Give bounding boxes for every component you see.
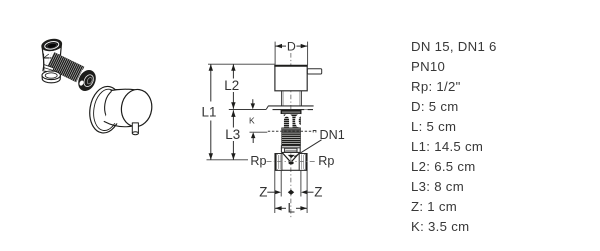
- svg-text:L1: 14.5 cm: L1: 14.5 cm: [411, 139, 483, 154]
- bottom wall flange ring: [42, 71, 60, 83]
- svg-text:DN1: DN1: [320, 128, 345, 142]
- knob lever pin: [132, 123, 138, 135]
- dimension L2: [224, 64, 239, 109]
- bonnet body section: [280, 148, 282, 153]
- threaded stem (dark with thin thread lines) below plate: [281, 110, 302, 146]
- valve body vertical column + hex band: [43, 54, 60, 71]
- valve cone filled triangle: [288, 155, 295, 158]
- svg-text:K: 3.5 cm: K: 3.5 cm: [411, 219, 469, 234]
- vertical centerline (dash-dot): [290, 53, 292, 219]
- svg-text:nd: nd: [279, 106, 310, 134]
- svg-text:K: K: [249, 115, 255, 125]
- horizontal centerline through ports (dash-dot): [267, 160, 316, 162]
- svg-text:D: D: [287, 39, 296, 53]
- svg-text:L: L: [287, 200, 294, 215]
- svg-text:D: 5 cm: D: 5 cm: [411, 99, 459, 114]
- knob (top view rectangle): [275, 66, 307, 91]
- K lower extension line + dashed wall line: [250, 131, 268, 133]
- svg-text:L: 5 cm: L: 5 cm: [411, 119, 456, 134]
- right port (female thread): [299, 154, 307, 171]
- bonnet white band: [281, 146, 300, 148]
- left port (female thread): [275, 154, 282, 171]
- svg-text:L1: L1: [202, 105, 217, 120]
- centerline extension line (left): [207, 159, 249, 161]
- valve body cup (top female thread opening): [41, 38, 62, 58]
- knob cylinder (base ellipse + sides + front face): [102, 87, 154, 128]
- seat ellipse at apex: [288, 161, 293, 164]
- svg-text:DN 15, DN1 6: DN 15, DN1 6: [411, 39, 497, 54]
- dimension K: [249, 99, 255, 143]
- svg-text:Rp: 1/2": Rp: 1/2": [411, 79, 461, 94]
- dimension D: [275, 39, 308, 65]
- svg-text:L2: 6.5 cm: L2: 6.5 cm: [411, 159, 476, 174]
- dimension L: [275, 170, 307, 215]
- body lower neck: [43, 54, 54, 73]
- long male threaded spigot (dark, thread lines): [45, 51, 84, 82]
- plate-level extension line: [229, 109, 266, 111]
- svg-text:L3: L3: [225, 127, 240, 142]
- dimension L3: [225, 110, 240, 160]
- svg-text:L2: L2: [224, 78, 239, 93]
- leader line to DN1: [294, 140, 321, 157]
- svg-text:Rp: Rp: [250, 154, 266, 168]
- dimension Z (left and right): [259, 170, 322, 199]
- funnel V inside body: [282, 153, 291, 163]
- center diamond marker: [288, 190, 294, 195]
- trim rosette (round wall plate): [87, 84, 125, 135]
- svg-text:PN10: PN10: [411, 59, 445, 74]
- spigot end nut/cap: [75, 67, 99, 94]
- svg-text:Z: Z: [259, 185, 267, 200]
- svg-text:Rp: Rp: [318, 154, 334, 168]
- svg-text:Z: Z: [314, 185, 322, 200]
- svg-text:Z: 1 cm: Z: 1 cm: [411, 199, 457, 214]
- top extension line (knob top level): [208, 63, 275, 65]
- knob side tab: [307, 69, 321, 74]
- valve body center: [281, 152, 283, 153]
- cover plate (edge-on): [268, 105, 314, 107]
- stem between knob and plate: [281, 91, 283, 106]
- dimension L1: [202, 64, 217, 160]
- svg-text:L3: 8 cm: L3: 8 cm: [411, 179, 464, 194]
